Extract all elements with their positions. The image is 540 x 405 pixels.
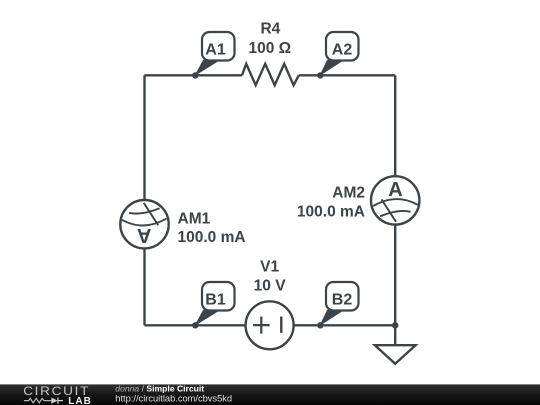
svg-text:R4: R4 bbox=[260, 21, 280, 38]
label AM2 name bbox=[332, 185, 365, 202]
svg-text:100 Ω: 100 Ω bbox=[248, 40, 291, 57]
svg-text:A2: A2 bbox=[332, 42, 353, 59]
wire: bottom horizontal (B1/B2 node run) bbox=[145, 324, 396, 326]
svg-text:A1: A1 bbox=[205, 42, 226, 59]
wire: left vertical through AM1 bbox=[143, 75, 145, 325]
label AM1 value 100.0 mA bbox=[178, 229, 246, 246]
ammeter AM1 (rotated 180) bbox=[120, 200, 168, 248]
svg-text:A: A bbox=[388, 179, 402, 201]
wire: top-left segment (A1 node run) bbox=[145, 74, 243, 76]
svg-text:http://circuitlab.com/cbvs5kd: http://circuitlab.com/cbvs5kd bbox=[115, 394, 232, 404]
resistor R4 (zigzag body) bbox=[242, 64, 299, 85]
flag B1 bbox=[194, 282, 234, 326]
logo squiggle (resistor + diode) bbox=[24, 398, 63, 404]
junction dot at ground bbox=[392, 322, 398, 328]
wire: right vertical through AM2 bbox=[394, 75, 396, 325]
flag A1 bbox=[194, 32, 234, 76]
label R4 value 100 Ohm bbox=[248, 40, 291, 57]
svg-text:100.0 mA: 100.0 mA bbox=[178, 229, 246, 246]
svg-text:B2: B2 bbox=[332, 292, 353, 309]
svg-text:V1: V1 bbox=[260, 259, 279, 276]
svg-text:100.0 mA: 100.0 mA bbox=[297, 204, 365, 221]
label V1 name bbox=[260, 259, 279, 276]
label AM1 name bbox=[178, 210, 211, 227]
flag B2 bbox=[319, 282, 358, 326]
label AM2 value 100.0 mA bbox=[297, 204, 365, 221]
node dot A1 bbox=[192, 72, 198, 78]
footer line 1: author / title bbox=[115, 384, 204, 394]
svg-text:AM2: AM2 bbox=[332, 185, 365, 202]
ground bbox=[375, 325, 416, 364]
label R4 name bbox=[260, 21, 280, 38]
label V1 value 10 V bbox=[254, 277, 287, 294]
svg-text:donna / Simple Circuit: donna / Simple Circuit bbox=[115, 384, 204, 394]
svg-text:B1: B1 bbox=[205, 292, 226, 309]
footer line 2: url bbox=[115, 394, 232, 404]
node dot B1 bbox=[192, 322, 198, 328]
voltage source V1 bbox=[246, 301, 294, 349]
flag A2 bbox=[319, 32, 358, 76]
logo CIRCUIT wordmark bbox=[23, 385, 90, 398]
ammeter AM2 bbox=[371, 176, 419, 224]
svg-text:10 V: 10 V bbox=[254, 277, 287, 294]
svg-text:LAB: LAB bbox=[68, 396, 92, 405]
svg-text:A: A bbox=[137, 224, 151, 246]
node dot B2 bbox=[317, 322, 323, 328]
node dot A2 bbox=[317, 72, 323, 78]
footer bar bbox=[0, 384, 540, 405]
wire: top-right segment (A2 node run) bbox=[299, 74, 395, 76]
logo LAB wordmark bbox=[68, 396, 92, 405]
svg-text:AM1: AM1 bbox=[178, 210, 211, 227]
